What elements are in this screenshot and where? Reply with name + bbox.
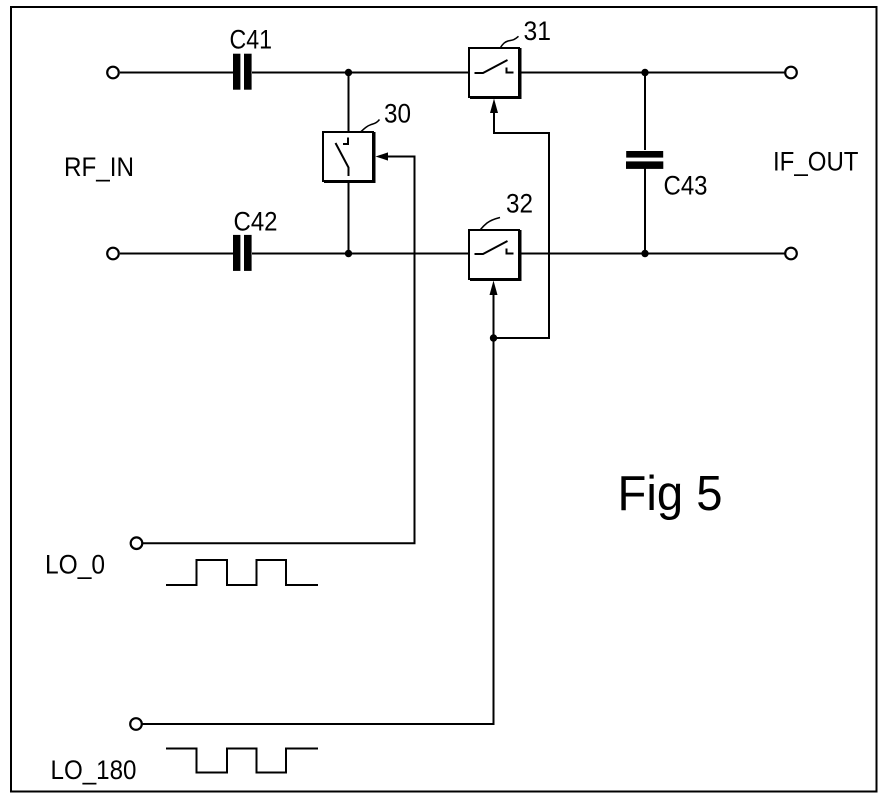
- svg-text:31: 31: [524, 16, 552, 46]
- svg-text:30: 30: [384, 99, 411, 129]
- svg-text:C42: C42: [234, 207, 278, 237]
- svg-text:LO_180: LO_180: [51, 755, 137, 785]
- svg-text:32: 32: [506, 189, 533, 219]
- svg-text:Fig 5: Fig 5: [618, 467, 723, 521]
- svg-text:C43: C43: [664, 171, 708, 201]
- svg-text:IF_OUT: IF_OUT: [773, 147, 859, 177]
- svg-text:C41: C41: [230, 25, 273, 55]
- svg-text:RF_IN: RF_IN: [64, 152, 134, 182]
- svg-text:LO_0: LO_0: [45, 550, 105, 580]
